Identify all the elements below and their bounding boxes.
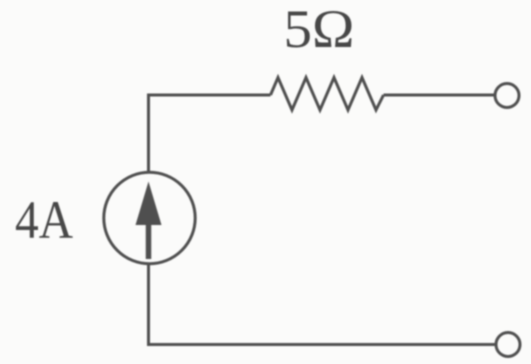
terminal a (top open terminal) xyxy=(495,84,519,108)
wire: bottom vertical segment xyxy=(149,263,496,345)
terminal b (bottom open terminal) xyxy=(496,333,520,357)
wire: top horizontal right segment xyxy=(384,94,495,97)
current source arrow shaft xyxy=(146,222,152,259)
wire: top horizontal left segment xyxy=(149,95,271,172)
current source arrow (pointing up) xyxy=(136,182,162,226)
svg-text:5Ω: 5Ω xyxy=(284,0,355,59)
current source I1 (4A) circle xyxy=(104,172,195,263)
svg-text:4A: 4A xyxy=(15,190,73,250)
resistor R (5Ω) zigzag xyxy=(271,78,384,111)
